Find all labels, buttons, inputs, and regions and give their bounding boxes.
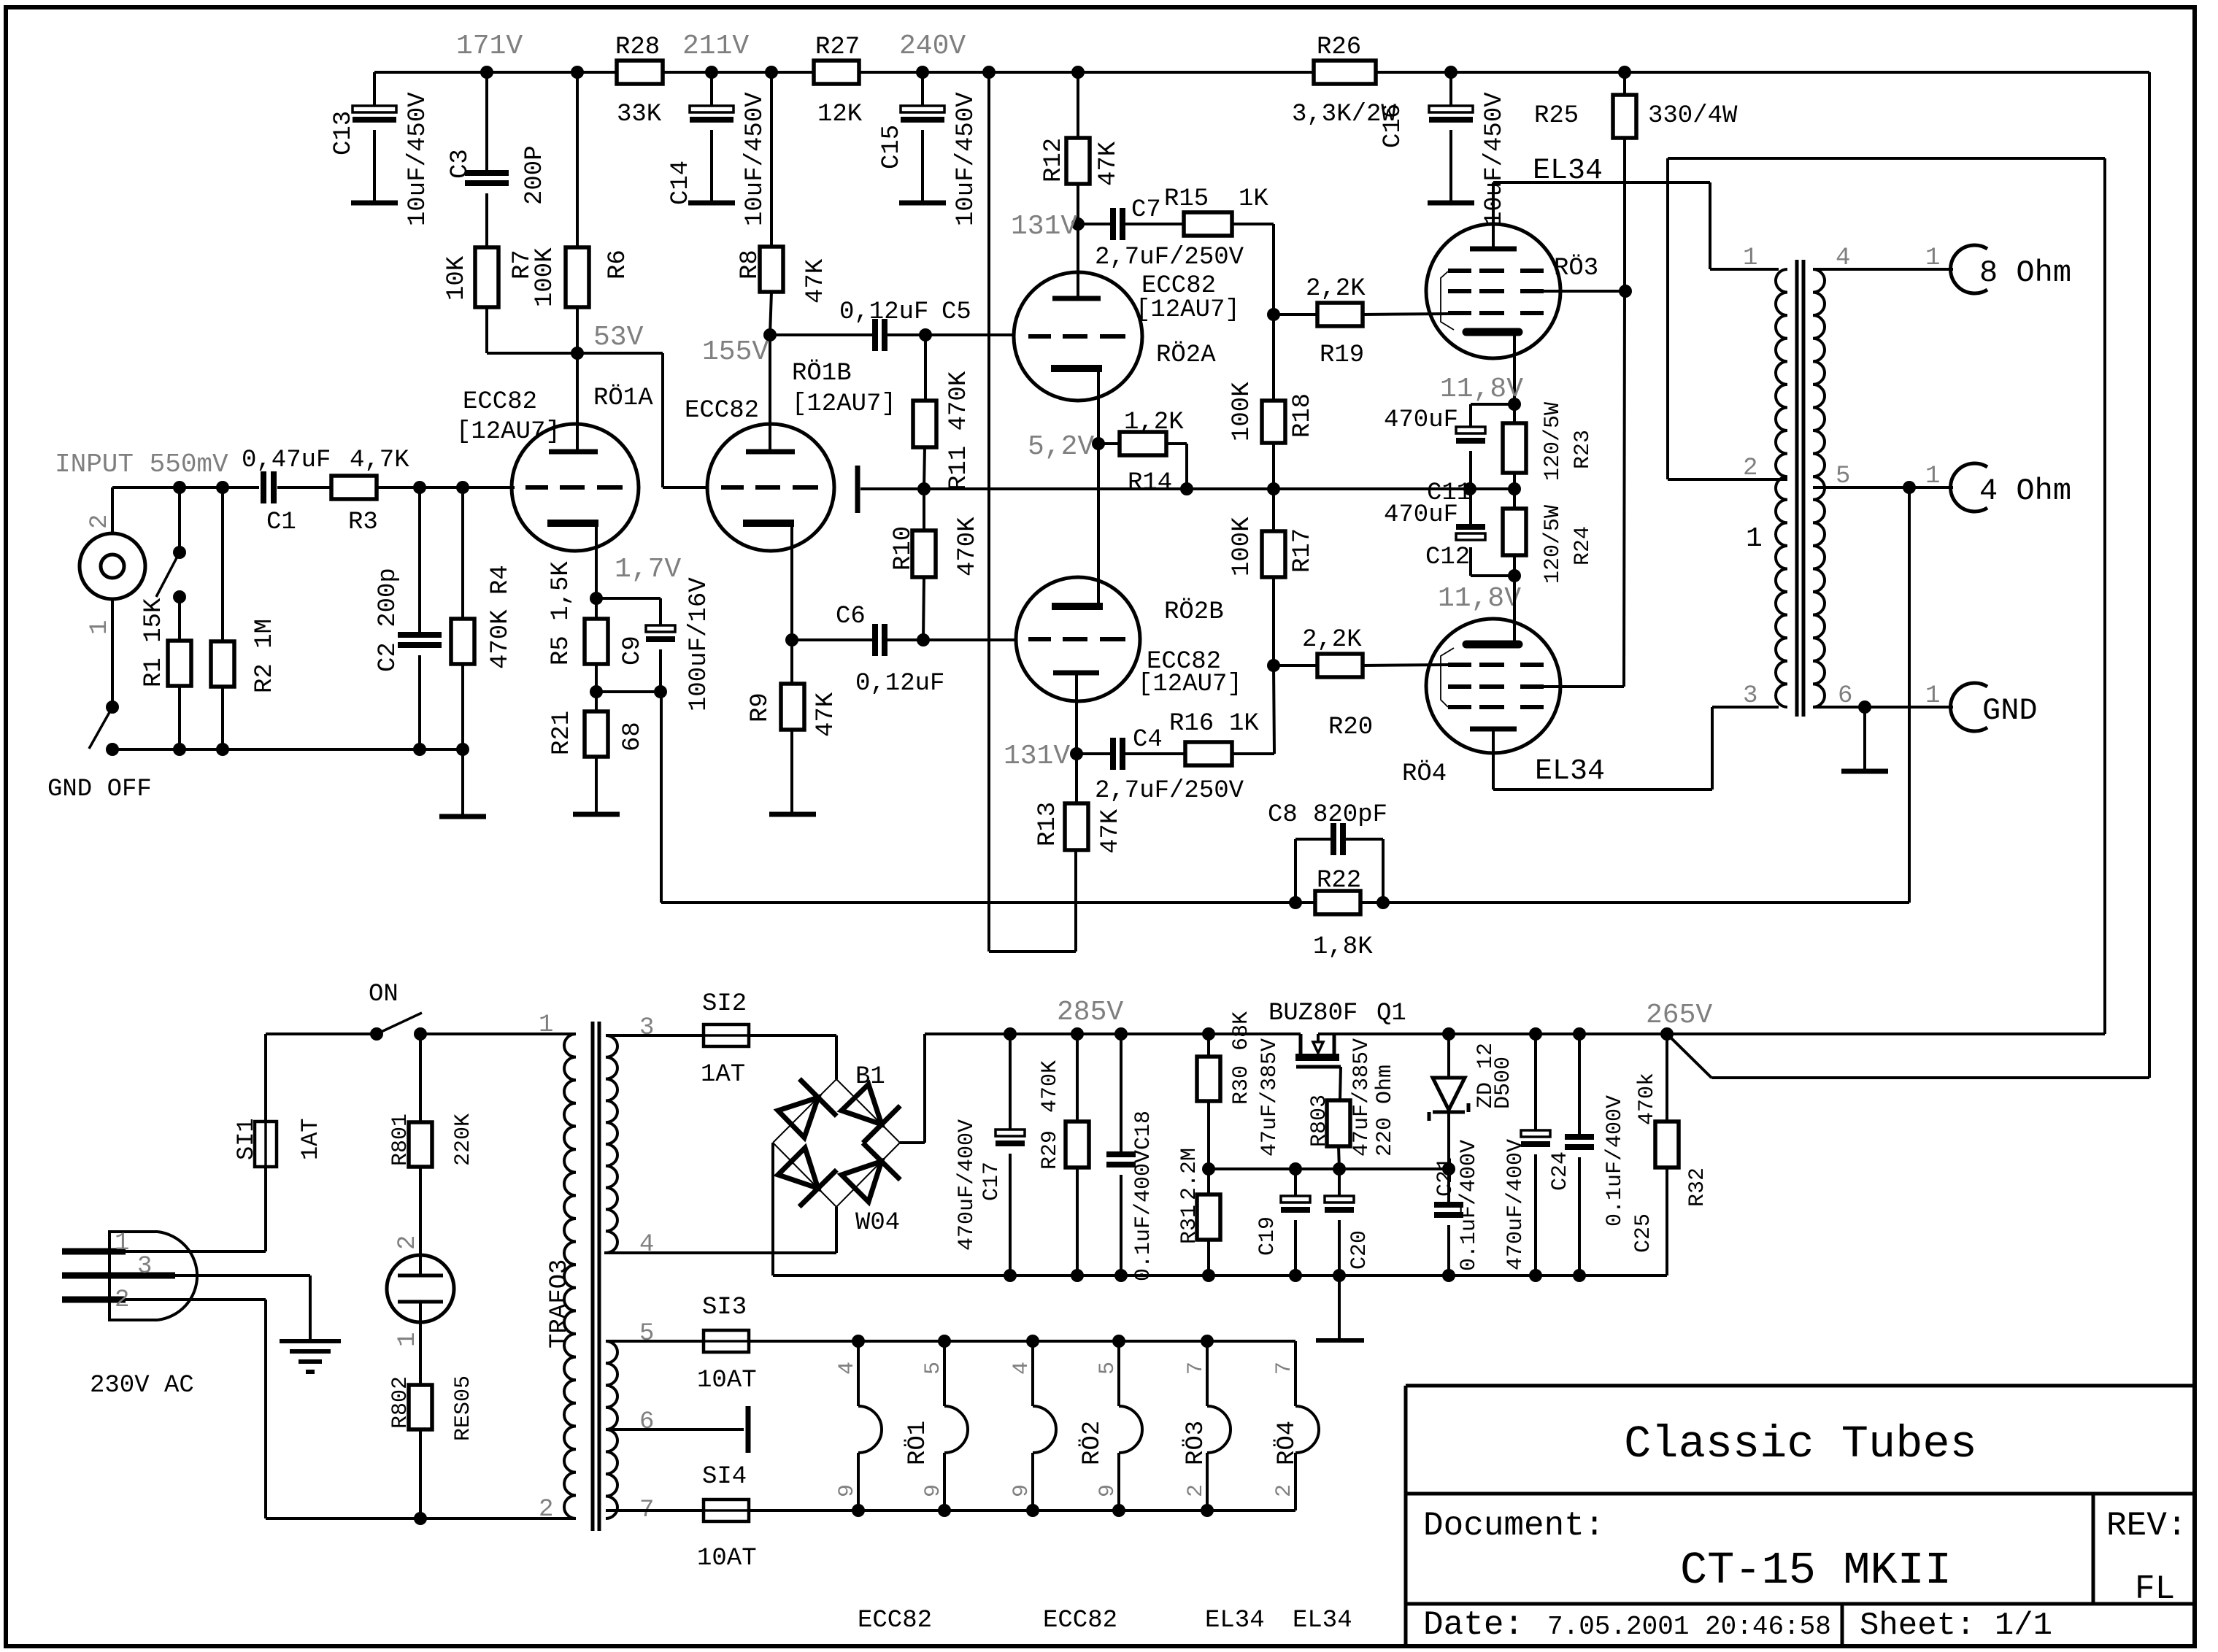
- resistor R31 2.2M: [1177, 1148, 1220, 1275]
- wire switch to trafo: [420, 1032, 576, 1035]
- svg-text:ECC82: ECC82: [685, 397, 759, 425]
- resistor R5 1,5K: [547, 561, 608, 698]
- wire RO2A anode: [1077, 224, 1079, 298]
- svg-text:10uF/450V: 10uF/450V: [742, 92, 769, 226]
- svg-text:33K: 33K: [617, 101, 662, 128]
- svg-text:6: 6: [639, 1408, 654, 1436]
- mosfet Q1 BUZ80F: [1295, 1034, 1341, 1100]
- capacitor C15: [878, 72, 980, 226]
- svg-text:R29: R29: [1038, 1130, 1063, 1170]
- capacitor C9 100uF: [596, 577, 713, 711]
- resistor R18 100K: [1228, 314, 1317, 489]
- svg-text:R803: R803: [1307, 1095, 1332, 1147]
- resistor R22 1,8K: [1289, 867, 1390, 961]
- heater RO1 pin5: [904, 1341, 968, 1510]
- svg-text:5,2V: 5,2V: [1028, 431, 1094, 463]
- svg-text:RÖ4: RÖ4: [1274, 1421, 1301, 1465]
- transformer T1 primary coil: [1776, 269, 1787, 707]
- svg-text:ON: ON: [369, 981, 398, 1008]
- heater RO2 pin5: [1079, 1341, 1142, 1510]
- wire RO2A cathode 5,2V: [1028, 368, 1105, 463]
- svg-text:220 Ohm: 220 Ohm: [1373, 1065, 1398, 1157]
- svg-text:0.1uF/400V: 0.1uF/400V: [1457, 1140, 1482, 1271]
- wire input line: [112, 486, 515, 489]
- svg-text:330/4W: 330/4W: [1648, 102, 1738, 130]
- fuse SI2 1AT: [606, 990, 836, 1089]
- resistor R19 2,2K: [1274, 275, 1449, 369]
- svg-text:0,12uF: 0,12uF: [855, 670, 944, 698]
- svg-text:C12: C12: [1425, 544, 1470, 571]
- svg-text:[12AU7]: [12AU7]: [1136, 296, 1240, 324]
- wire RO2B cathode: [1097, 444, 1100, 606]
- node 131V RO2B: [1004, 741, 1083, 772]
- capacitor C24 470uF/400V: [1503, 1034, 1573, 1275]
- terminal bar pin6: [606, 1406, 748, 1453]
- svg-text:W04: W04: [855, 1209, 900, 1237]
- transformer TRAFO3 primary: [539, 1011, 576, 1524]
- node 155V anode RO1B: [702, 328, 777, 452]
- svg-text:285V: 285V: [1057, 997, 1123, 1028]
- svg-text:0.1uF/400V: 0.1uF/400V: [1603, 1095, 1628, 1227]
- svg-text:9: 9: [1095, 1484, 1120, 1497]
- svg-text:C6: C6: [836, 603, 866, 630]
- svg-text:10uF/450V: 10uF/450V: [952, 92, 980, 226]
- svg-text:RÖ3: RÖ3: [1182, 1421, 1210, 1465]
- svg-text:1: 1: [1925, 682, 1940, 710]
- resistor R27: [814, 34, 863, 128]
- svg-text:12K: 12K: [817, 101, 863, 128]
- svg-text:C20: C20: [1347, 1230, 1372, 1270]
- label 1,7V: [615, 554, 681, 585]
- svg-text:2,7uF/250V: 2,7uF/250V: [1095, 777, 1244, 805]
- title CT-15 MKII: [1680, 1545, 1952, 1597]
- svg-text:8 Ohm: 8 Ohm: [1979, 255, 2071, 290]
- svg-text:R8: R8: [736, 250, 764, 279]
- svg-text:R3: R3: [348, 509, 378, 536]
- svg-text:Classic Tubes: Classic Tubes: [1624, 1419, 1977, 1470]
- svg-text:4,7K: 4,7K: [350, 447, 409, 474]
- svg-text:C18: C18: [1131, 1111, 1156, 1150]
- label 230V AC: [90, 1372, 194, 1400]
- svg-text:R25: R25: [1534, 102, 1579, 130]
- svg-text:1,7V: 1,7V: [615, 554, 681, 585]
- svg-text:230V AC: 230V AC: [90, 1372, 194, 1400]
- resistor R10 470K: [890, 489, 982, 640]
- svg-text:Sheet: 1/1: Sheet: 1/1: [1860, 1607, 2052, 1644]
- svg-text:0,12uF: 0,12uF: [839, 298, 928, 326]
- svg-text:1: 1: [539, 1011, 553, 1039]
- svg-text:R24: R24: [1571, 526, 1595, 566]
- resistor R2 1M: [211, 487, 279, 749]
- svg-text:R28: R28: [615, 34, 660, 61]
- svg-text:1K: 1K: [1229, 710, 1259, 738]
- svg-text:171V: 171V: [456, 31, 523, 62]
- svg-text:R1 15K: R1 15K: [140, 598, 168, 687]
- wire 53V to RO1B grid: [577, 353, 709, 487]
- capacitor C20 47uF/385V: [1325, 1038, 1374, 1275]
- svg-text:470uF/400V: 470uF/400V: [955, 1119, 979, 1251]
- label ECC82 RO2: [1043, 1607, 1117, 1634]
- bridge rectifier B1 W04: [604, 1035, 900, 1253]
- svg-text:R9: R9: [747, 692, 774, 722]
- title REV FL: [2106, 1507, 2187, 1608]
- transformer TRAFO3 heater winding A: [606, 1320, 654, 1436]
- svg-text:RES05: RES05: [451, 1375, 476, 1441]
- wire RO2B anode: [1075, 673, 1078, 754]
- svg-text:220K: 220K: [451, 1113, 476, 1166]
- resistor R9 47K: [747, 640, 840, 814]
- title Document: [1423, 1507, 1604, 1545]
- capacitor C8 820pF: [1268, 801, 1387, 903]
- svg-text:REV:: REV:: [2106, 1507, 2187, 1545]
- svg-text:Date:: Date:: [1423, 1606, 1524, 1644]
- capacitor C16: [1379, 72, 1509, 226]
- capacitor C11 470uF: [1384, 404, 1514, 507]
- label ECC82 RO1: [858, 1607, 932, 1634]
- svg-text:R32: R32: [1685, 1167, 1710, 1207]
- wire 285V 265V rail: [925, 1032, 2105, 1035]
- svg-text:47K: 47K: [1095, 141, 1123, 186]
- svg-text:ECC82: ECC82: [463, 388, 537, 416]
- wire input ground bus: [112, 743, 469, 756]
- wire bridge minus to 0V: [773, 1143, 1004, 1275]
- svg-text:10AT: 10AT: [697, 1545, 757, 1572]
- svg-text:4: 4: [1836, 244, 1850, 272]
- heater RO1 pin4: [835, 1341, 882, 1510]
- svg-text:RÖ2A: RÖ2A: [1156, 341, 1216, 369]
- node 171V rail junctions: [480, 66, 1631, 79]
- triode U RO1A: [512, 424, 639, 551]
- label pin5: [1836, 463, 1850, 490]
- svg-text:47uF/385V: 47uF/385V: [1258, 1038, 1282, 1157]
- wire RO2A grid: [925, 333, 1015, 336]
- resistor R803 220 Ohm: [1307, 1065, 1398, 1169]
- resistor R7 10K: [443, 247, 577, 353]
- svg-text:FL: FL: [2135, 1570, 2175, 1608]
- svg-text:1: 1: [115, 1230, 129, 1257]
- svg-text:R22: R22: [1317, 867, 1361, 895]
- svg-text:2: 2: [86, 514, 114, 529]
- label pin1 gnd: [1925, 682, 1940, 710]
- svg-text:RÖ2B: RÖ2B: [1164, 598, 1224, 626]
- capacitor C12 470uF: [1384, 489, 1514, 576]
- svg-text:820pF: 820pF: [1313, 801, 1387, 829]
- svg-text:240V: 240V: [899, 31, 966, 62]
- svg-text:155V: 155V: [702, 336, 769, 368]
- svg-text:R801: R801: [388, 1113, 413, 1166]
- capacitor C1 0,47uF: [242, 447, 331, 536]
- svg-text:C24: C24: [1548, 1151, 1573, 1191]
- triode U RO1B: [707, 424, 834, 551]
- connector 8 Ohm: [1951, 245, 2071, 293]
- wire bridge plus to 285V: [900, 1034, 925, 1143]
- transformer TRAFO3 core: [593, 1022, 599, 1531]
- long wire 240V to R13: [989, 72, 1076, 952]
- title Date: [1423, 1606, 1831, 1644]
- svg-text:Q1: Q1: [1376, 1000, 1406, 1027]
- label ECC82 [12AU7] RO1B: [685, 360, 896, 425]
- svg-text:C21: C21: [1433, 1157, 1458, 1197]
- wire RO3 anode to trafo pin1: [1493, 182, 1779, 269]
- label EL34 RO3: [1533, 155, 1603, 282]
- wire psu mid rail: [1202, 1162, 1455, 1176]
- resistor R21 68: [548, 692, 647, 814]
- ground below R4: [439, 749, 486, 817]
- capacitor C13: [330, 72, 432, 226]
- svg-text:BUZ80F: BUZ80F: [1268, 1000, 1358, 1027]
- wire RO1A anode: [576, 353, 579, 452]
- svg-text:131V: 131V: [1011, 211, 1077, 242]
- svg-text:ECC82: ECC82: [858, 1607, 932, 1634]
- svg-text:R23: R23: [1571, 430, 1595, 469]
- svg-text:2,2K: 2,2K: [1306, 275, 1366, 303]
- node input junctions: [173, 481, 469, 494]
- svg-text:C8: C8: [1268, 801, 1298, 829]
- svg-text:R14: R14: [1128, 469, 1172, 497]
- svg-text:SI3: SI3: [702, 1294, 747, 1321]
- triode U RO2B: [1016, 577, 1140, 701]
- resistor R802 RES05: [388, 1322, 476, 1518]
- resistor R4 470K: [451, 487, 515, 749]
- svg-text:3: 3: [639, 1014, 654, 1042]
- svg-text:EL34: EL34: [1293, 1607, 1352, 1634]
- resistor R14 1,2K: [1098, 409, 1187, 497]
- svg-text:100K: 100K: [1228, 517, 1256, 576]
- capacitor C7 2,7uF: [1078, 196, 1244, 271]
- svg-text:R802: R802: [388, 1376, 413, 1429]
- svg-text:R20: R20: [1328, 714, 1373, 741]
- svg-text:1,8K: 1,8K: [1313, 933, 1373, 961]
- svg-text:5: 5: [1836, 463, 1850, 490]
- svg-text:C4: C4: [1133, 726, 1163, 754]
- svg-text:R10: R10: [890, 526, 917, 571]
- label pin1 8ohm: [1925, 244, 1940, 272]
- svg-text:EL34: EL34: [1205, 1607, 1265, 1634]
- title Sheet: [1860, 1607, 2052, 1644]
- svg-text:1: 1: [394, 1332, 422, 1347]
- label pin1 4ohm: [1925, 463, 1940, 490]
- label INPUT 550mV: [55, 449, 228, 479]
- resistor R26: [1292, 34, 1396, 128]
- capacitor C25 0.1uF/400V: [1565, 1034, 1656, 1275]
- svg-text:9: 9: [921, 1484, 946, 1497]
- svg-text:3: 3: [1743, 682, 1757, 710]
- node 131V RO2A: [1011, 211, 1085, 242]
- resistor R16 1K: [1169, 665, 1274, 765]
- svg-text:C9: C9: [619, 636, 647, 665]
- zener diode ZD12 D500: [1429, 1034, 1516, 1169]
- svg-text:4: 4: [1009, 1362, 1034, 1375]
- svg-text:1: 1: [1743, 244, 1757, 272]
- resistor R1 15K: [140, 598, 191, 749]
- label 285V: [1057, 997, 1123, 1028]
- svg-text:470k: 470k: [1635, 1073, 1660, 1125]
- svg-text:5: 5: [1095, 1362, 1120, 1375]
- svg-text:RÖ1B: RÖ1B: [792, 360, 852, 387]
- svg-text:68K: 68K: [1229, 1011, 1254, 1051]
- svg-text:470K: 470K: [954, 517, 982, 576]
- triode U RO2A: [1014, 272, 1142, 401]
- svg-text:R11 470K: R11 470K: [945, 371, 973, 490]
- svg-text:0.1uF/400V: 0.1uF/400V: [1131, 1150, 1156, 1281]
- svg-text:68: 68: [619, 722, 647, 752]
- svg-text:470uF: 470uF: [1384, 406, 1458, 434]
- svg-text:R18: R18: [1289, 393, 1317, 438]
- svg-text:C7: C7: [1131, 196, 1161, 224]
- capacitor C19 47uF/385V: [1255, 1038, 1310, 1275]
- svg-text:1: 1: [1746, 523, 1763, 555]
- label RO2B ECC82 [12AU7]: [1138, 598, 1242, 698]
- pentode U RO3: [1426, 224, 1560, 358]
- wire secondary pin5 4 Ohm: [1813, 481, 1953, 494]
- svg-text:R16: R16: [1169, 710, 1214, 738]
- resistor R29 470K: [1038, 1034, 1089, 1275]
- svg-text:R30: R30: [1229, 1065, 1254, 1105]
- svg-text:C17: C17: [979, 1162, 1004, 1201]
- resistor R24 120/5W: [1503, 489, 1595, 584]
- label pin6: [1838, 682, 1852, 710]
- transformer TRAFO3 secondary HV: [606, 1014, 654, 1259]
- svg-text:2: 2: [1272, 1484, 1297, 1497]
- wire C20 to ground: [1338, 1275, 1341, 1340]
- svg-text:470K R4: 470K R4: [487, 565, 515, 669]
- svg-text:R6: R6: [604, 250, 632, 279]
- label pin2 primary: [1743, 455, 1757, 482]
- label 265V: [1646, 1000, 1712, 1031]
- svg-text:200P: 200P: [521, 145, 549, 205]
- wire RO3 cathode: [1508, 332, 1521, 411]
- switch input gnd: [156, 487, 186, 641]
- wire B+ right side feed: [1667, 72, 2149, 1078]
- wire 0V rail: [1004, 1274, 1667, 1277]
- earth ground symbol: [280, 1341, 341, 1372]
- pentode U RO4: [1426, 619, 1560, 753]
- svg-text:120/5W: 120/5W: [1541, 505, 1566, 584]
- wire RO2B grid line: [923, 638, 1017, 641]
- svg-text:R15: R15: [1164, 185, 1209, 213]
- wire bias line: [860, 487, 1514, 490]
- svg-text:1: 1: [1925, 463, 1940, 490]
- svg-text:10K: 10K: [443, 255, 471, 301]
- svg-text:TRAFO3: TRAFO3: [546, 1259, 574, 1348]
- label EL34 RO3: [1205, 1607, 1265, 1634]
- wire trafo pin2 to 265V: [1668, 158, 2105, 1034]
- resistor R12 47K: [1040, 72, 1123, 224]
- label 11,8V lower: [1438, 583, 1521, 614]
- capacitor C14: [667, 72, 769, 226]
- svg-text:R2 1M: R2 1M: [251, 619, 279, 693]
- svg-text:265V: 265V: [1646, 1000, 1712, 1031]
- resistor R13 47K: [1034, 754, 1125, 854]
- capacitor C4 2,7uF: [1077, 726, 1244, 805]
- label 211V: [682, 31, 749, 62]
- svg-text:47K: 47K: [802, 258, 830, 304]
- capacitor C6 0,12uF: [792, 603, 944, 698]
- svg-text:7: 7: [1184, 1362, 1209, 1375]
- resistor R25 330/4W: [1534, 72, 1738, 687]
- svg-text:47K: 47K: [1097, 808, 1125, 854]
- fuse SI4 10AT: [606, 1463, 858, 1572]
- resistor R30 68K: [1197, 1011, 1254, 1169]
- wire RO3 screen: [1540, 285, 1632, 298]
- connector GND: [1951, 683, 2038, 731]
- svg-text:R31: R31: [1177, 1205, 1202, 1244]
- wire B+ top rail: [374, 71, 2149, 74]
- heater RO4 pin7: [1272, 1341, 1319, 1510]
- svg-text:C25: C25: [1631, 1213, 1656, 1253]
- svg-text:C15: C15: [878, 125, 906, 169]
- resistor R8 47K: [736, 72, 830, 335]
- svg-text:120/5W: 120/5W: [1541, 402, 1566, 481]
- transformer T1 secondary coil: [1813, 269, 1825, 707]
- svg-text:2.2M: 2.2M: [1177, 1148, 1202, 1200]
- label BUZ80F Q1: [1268, 1000, 1406, 1027]
- switch GND OFF: [47, 599, 152, 803]
- svg-text:GND OFF: GND OFF: [47, 776, 152, 803]
- svg-text:RÖ1A: RÖ1A: [593, 385, 653, 412]
- resistor R11 470K: [913, 335, 973, 490]
- wire heater top bus: [852, 1335, 1295, 1348]
- transformer T1 core: [1797, 260, 1803, 717]
- svg-text:ECC82: ECC82: [1043, 1607, 1117, 1634]
- wire RO4 screen: [1540, 685, 1624, 688]
- heater RO3 pin7: [1182, 1341, 1231, 1510]
- resistor R15 1K: [1164, 185, 1274, 314]
- svg-text:10uF/450V: 10uF/450V: [404, 92, 432, 226]
- wire RO4 cathode: [1513, 576, 1516, 644]
- resistor R6 100K: [531, 72, 632, 353]
- svg-text:4: 4: [835, 1362, 860, 1375]
- svg-text:C14: C14: [667, 161, 695, 205]
- svg-text:2: 2: [1184, 1484, 1209, 1497]
- fuse SI1 1AT: [233, 1034, 324, 1167]
- svg-text:1AT: 1AT: [297, 1118, 324, 1160]
- label 240V: [899, 31, 966, 62]
- node bias junctions: [917, 482, 1521, 495]
- resistor R801 220K: [388, 1034, 476, 1256]
- svg-text:[12AU7]: [12AU7]: [1138, 671, 1242, 698]
- title Classic Tubes: [1624, 1419, 1977, 1470]
- svg-text:R26: R26: [1317, 34, 1361, 61]
- capacitor C17 470uF/400V: [955, 1034, 1025, 1275]
- node R19 junction: [1267, 308, 1280, 321]
- wire RO1A cathode: [590, 523, 603, 605]
- svg-text:5: 5: [639, 1320, 654, 1348]
- svg-text:SI1: SI1: [233, 1118, 260, 1160]
- capacitor C5 0,12uF: [770, 298, 971, 351]
- svg-text:47uF/385V: 47uF/385V: [1349, 1038, 1374, 1157]
- svg-text:EL34: EL34: [1535, 755, 1605, 788]
- svg-text:R27: R27: [815, 34, 860, 61]
- svg-text:1AT: 1AT: [701, 1061, 745, 1089]
- svg-text:9: 9: [835, 1484, 860, 1497]
- resistor R3 4,7K: [331, 447, 409, 536]
- svg-text:R5 1,5K: R5 1,5K: [547, 561, 575, 665]
- fuse SI3 10AT: [606, 1294, 858, 1394]
- label pin4: [1836, 244, 1850, 272]
- svg-text:C3: C3: [447, 149, 474, 179]
- svg-text:100uF/16V: 100uF/16V: [685, 577, 713, 711]
- svg-text:11,8V: 11,8V: [1438, 583, 1521, 614]
- svg-text:INPUT 550mV: INPUT 550mV: [55, 449, 228, 479]
- svg-text:211V: 211V: [682, 31, 749, 62]
- svg-text:RÖ4: RÖ4: [1402, 760, 1447, 788]
- capacitor C3: [447, 72, 549, 247]
- label ON: [369, 981, 398, 1008]
- svg-text:Document:: Document:: [1423, 1507, 1604, 1545]
- svg-text:100K: 100K: [531, 247, 559, 307]
- svg-text:1: 1: [86, 620, 114, 635]
